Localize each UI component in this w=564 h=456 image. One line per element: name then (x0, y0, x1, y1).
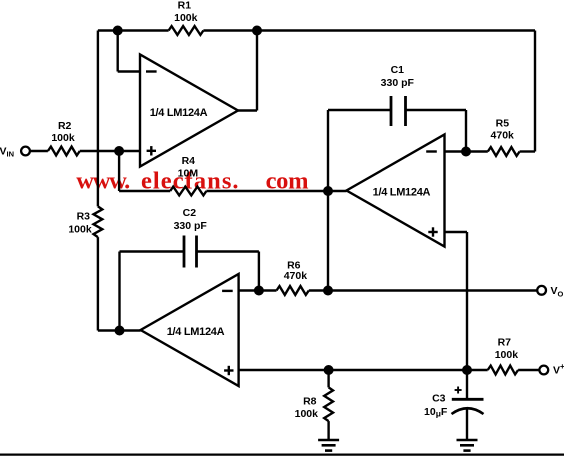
svg-text:100k: 100k (495, 349, 519, 361)
svg-text:10M: 10M (178, 167, 199, 179)
svg-text:C2: C2 (183, 207, 197, 219)
svg-text:R1: R1 (178, 0, 192, 11)
svg-text:C1: C1 (391, 64, 405, 76)
svg-text:VO: VO (551, 285, 564, 299)
svg-text:100k: 100k (51, 132, 75, 144)
svg-text:100k: 100k (295, 408, 319, 420)
svg-text:R4: R4 (182, 155, 196, 167)
svg-text:R8: R8 (303, 396, 317, 408)
svg-text:V+: V+ (553, 362, 564, 377)
svg-text:C3: C3 (432, 392, 446, 404)
svg-text:100k: 100k (174, 12, 198, 24)
svg-text:100k: 100k (68, 224, 92, 236)
svg-text:R3: R3 (77, 210, 91, 222)
svg-text:R5: R5 (496, 118, 510, 130)
svg-text:1/4 LM124A: 1/4 LM124A (373, 187, 431, 199)
svg-text:470k: 470k (284, 270, 308, 282)
svg-text:470k: 470k (491, 130, 515, 142)
svg-text:1/4 LM124A: 1/4 LM124A (167, 326, 225, 338)
svg-text:R7: R7 (498, 336, 512, 348)
svg-text:R2: R2 (58, 120, 72, 132)
svg-text:1/4 LM124A: 1/4 LM124A (150, 107, 208, 119)
svg-text:330 pF: 330 pF (174, 220, 208, 232)
svg-text:10μF: 10μF (424, 406, 448, 419)
svg-text:330 pF: 330 pF (381, 77, 415, 89)
svg-text:VIN: VIN (0, 146, 14, 159)
